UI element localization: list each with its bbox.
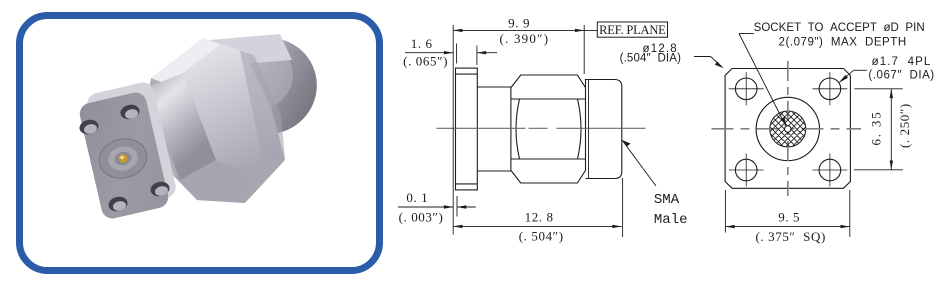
- svg-text:(. 375″ SQ): (. 375″ SQ): [755, 229, 825, 244]
- svg-text:(.067″ DIA): (.067″ DIA): [868, 70, 934, 82]
- svg-text:(. 504″): (. 504″): [519, 229, 564, 244]
- svg-text:REF. PLANE: REF. PLANE: [599, 23, 666, 37]
- svg-text:9. 5: 9. 5: [778, 209, 800, 224]
- svg-text:(.504″ DIA): (.504″ DIA): [620, 53, 681, 65]
- svg-text:9. 9: 9. 9: [508, 15, 530, 30]
- svg-text:1. 6: 1. 6: [411, 36, 433, 51]
- svg-text:(. 250″): (. 250″): [897, 103, 912, 148]
- svg-text:0. 1: 0. 1: [406, 190, 428, 205]
- svg-text:ø1.7 4PL: ø1.7 4PL: [872, 56, 932, 68]
- svg-text:2(.079") MAX DEPTH: 2(.079") MAX DEPTH: [779, 37, 907, 49]
- svg-text:(. 390″): (. 390″): [500, 31, 550, 46]
- svg-text:Male: Male: [654, 212, 688, 228]
- svg-text:12. 8: 12. 8: [525, 210, 554, 225]
- svg-text:6. 35: 6. 35: [869, 111, 884, 146]
- svg-text:(. 065″): (. 065″): [403, 53, 448, 68]
- svg-text:SOCKET TO ACCEPT øD PIN: SOCKET TO ACCEPT øD PIN: [754, 22, 925, 34]
- svg-text:(. 003″): (. 003″): [399, 209, 444, 224]
- svg-text:SMA: SMA: [654, 192, 680, 208]
